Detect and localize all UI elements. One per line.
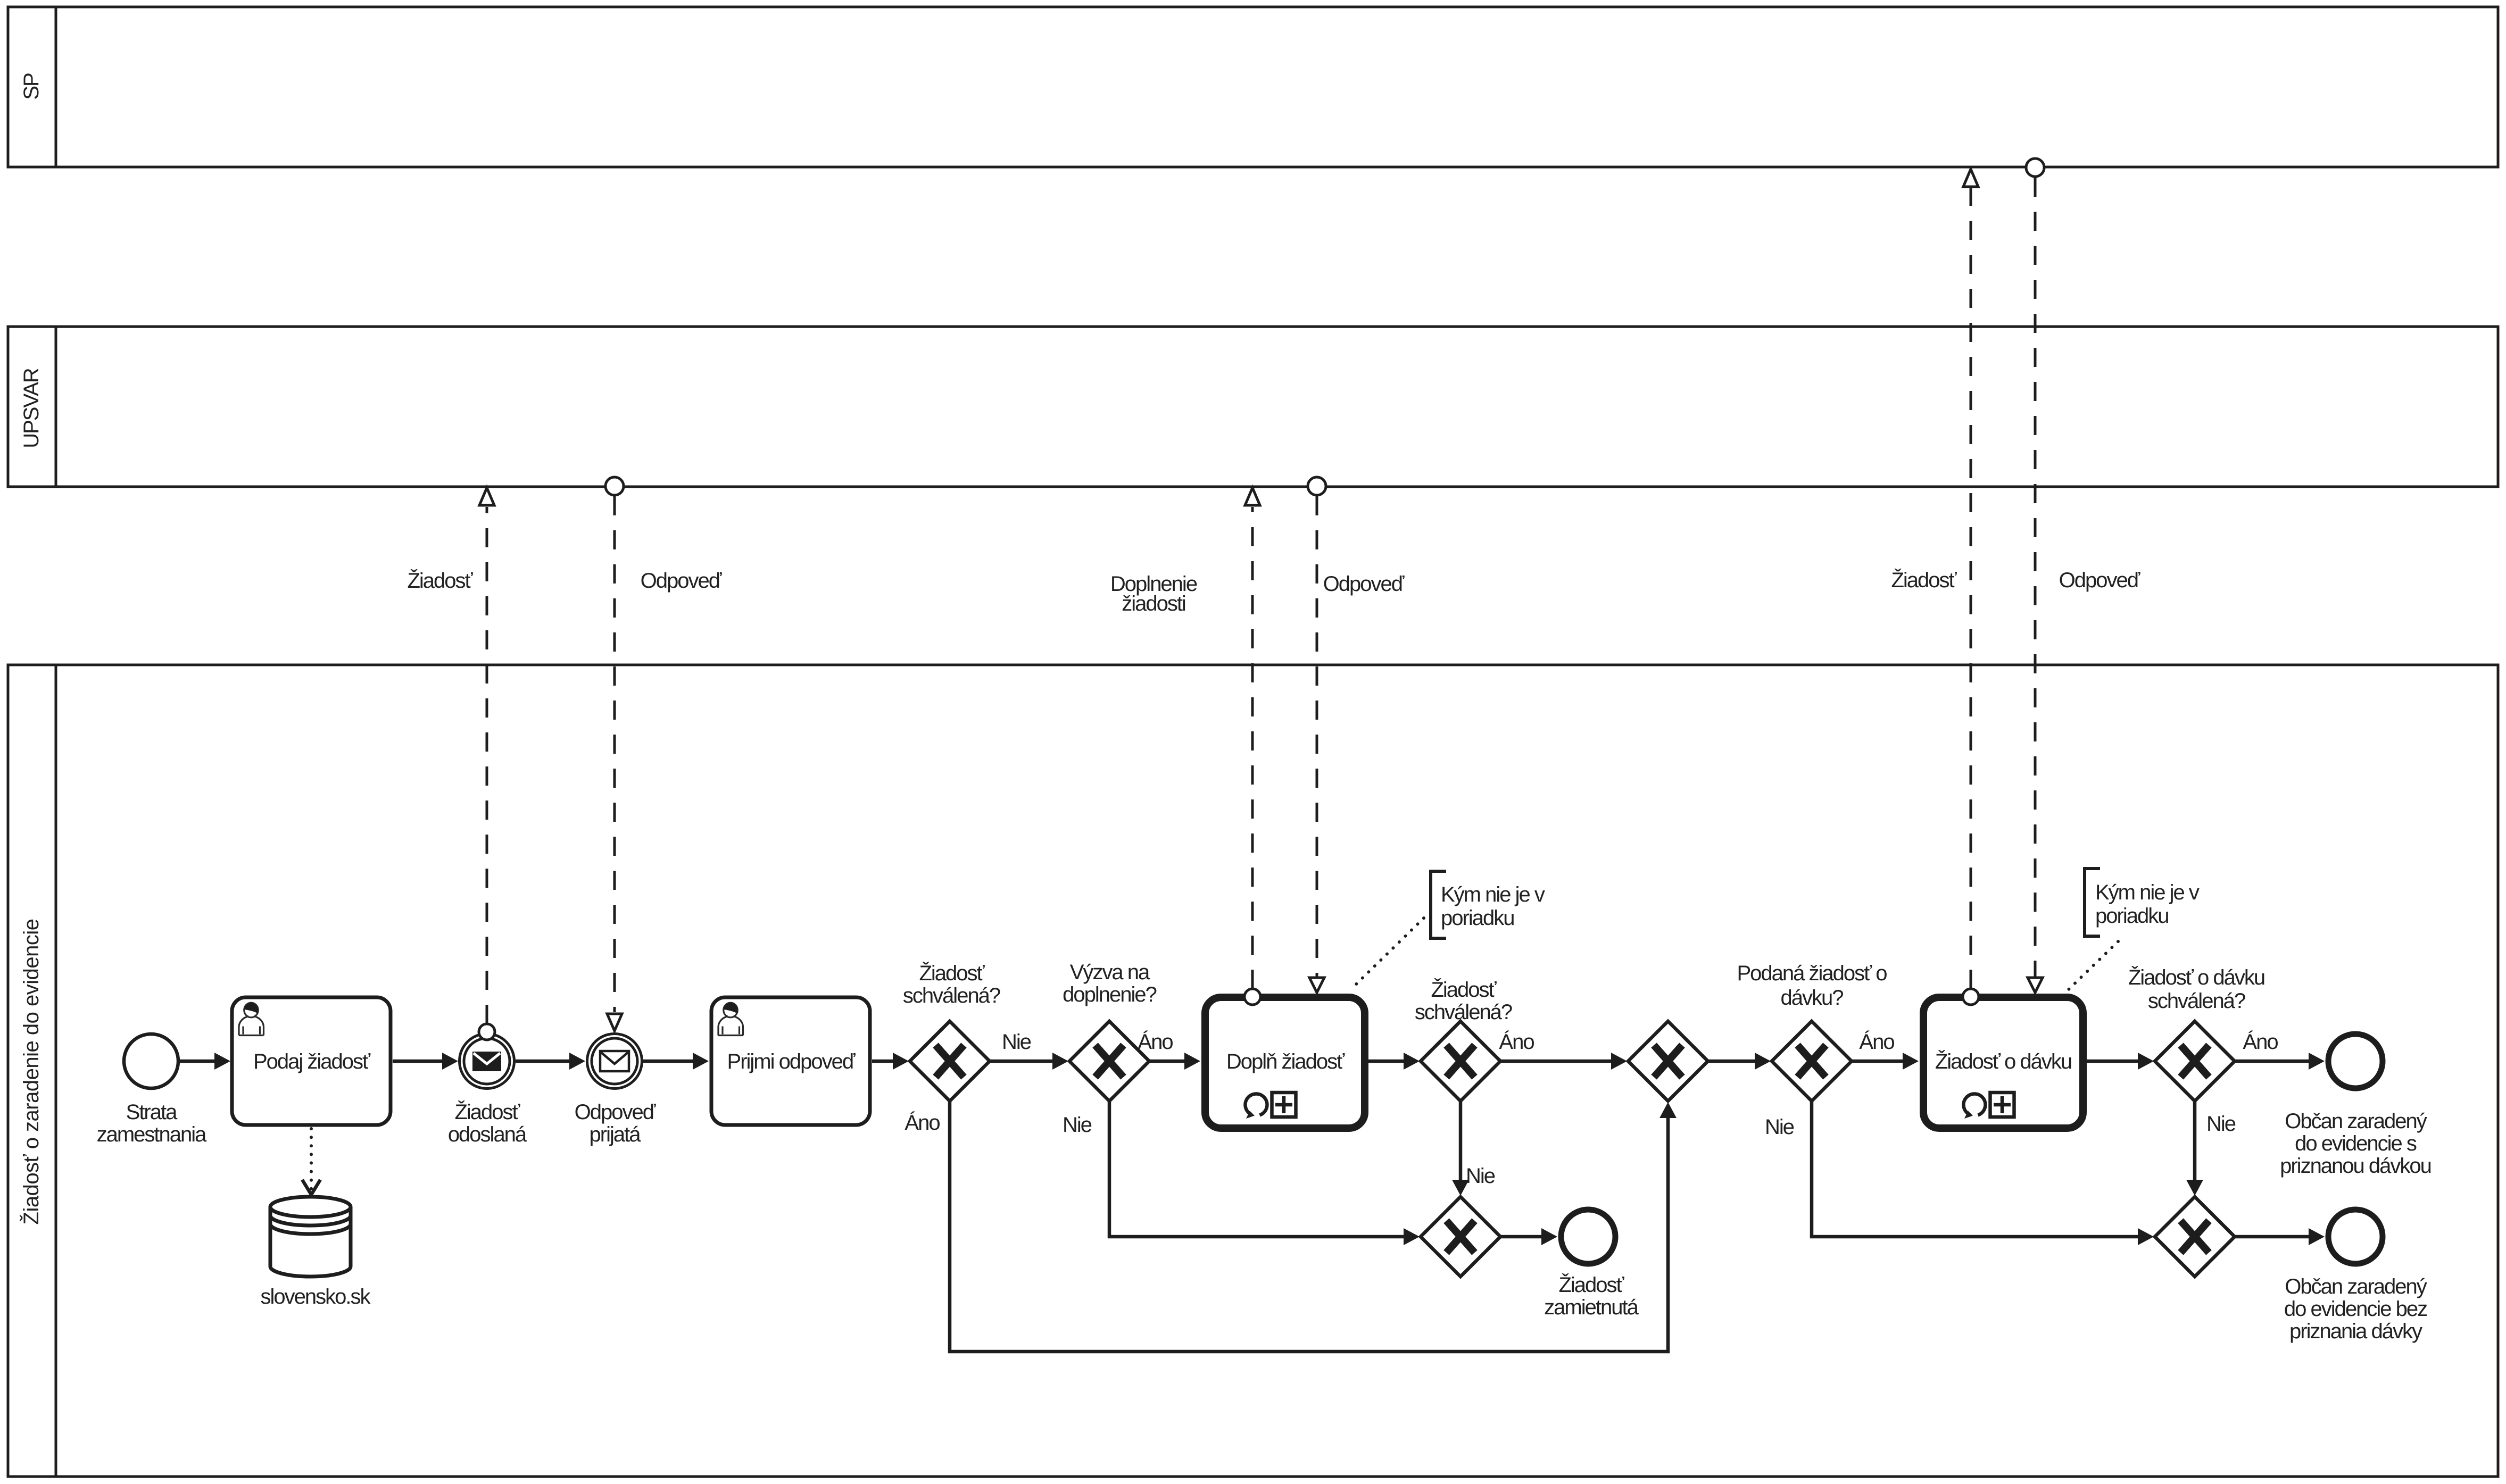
svg-text:Áno: Áno xyxy=(2243,1030,2278,1054)
end event Obcan zaradeny do evidencie s priznanou davkou xyxy=(2280,1034,2431,1178)
svg-text:Žiadosť: Žiadosť xyxy=(454,1100,520,1124)
subprocess Dopln ziadost xyxy=(1205,997,1365,1128)
wire throw to catch event xyxy=(516,1053,585,1070)
wire G7 Ano to end1 xyxy=(2235,1030,2325,1070)
wire G2 Nie down right to G4 xyxy=(1063,1101,1420,1245)
svg-text:Kým nie je v: Kým nie je v xyxy=(1441,883,1545,906)
gateway G6 Podana ziadost o davku? xyxy=(1737,962,1887,1101)
svg-text:Áno: Áno xyxy=(1499,1030,1534,1054)
wire G5 to G6 xyxy=(1708,1053,1771,1070)
svg-text:Občan zaradený: Občan zaradený xyxy=(2285,1110,2427,1133)
wire subprocess2 to G7 xyxy=(2087,1053,2154,1070)
svg-text:do evidencie bez: do evidencie bez xyxy=(2284,1297,2427,1321)
gateway G7 Ziadost o davku schvalena? xyxy=(2128,965,2264,1101)
wire G4 to end Ziadost zamietnuta xyxy=(1500,1228,1557,1245)
wire G7 Nie down to G8 xyxy=(2186,1101,2236,1196)
wire task2 to gateway1 xyxy=(872,1053,909,1070)
annotation Kym nie je v poriadku (right) xyxy=(2068,869,2200,990)
svg-text:Nie: Nie xyxy=(1002,1030,1031,1054)
annotation Kym nie je v poriadku (left) xyxy=(1352,871,1545,988)
wire catch to task2 xyxy=(643,1053,709,1070)
svg-text:Žiadosť o dávku: Žiadosť o dávku xyxy=(1935,1049,2071,1073)
svg-text:schválená?: schválená? xyxy=(1415,1001,1512,1024)
svg-text:Áno: Áno xyxy=(1138,1030,1173,1054)
wire G1 Ano long path to G5 xyxy=(905,1101,1677,1352)
gateway G4 merge xyxy=(1421,1197,1500,1277)
message throw event Ziadost odoslana xyxy=(448,1034,527,1147)
wire task1 to throw event xyxy=(393,1053,458,1070)
svg-text:Výzva na: Výzva na xyxy=(1070,961,1150,984)
message flow Odpoved (down to Dopln ziadost) xyxy=(1308,477,1405,993)
task Podaj ziadost xyxy=(232,997,391,1125)
svg-text:schválená?: schválená? xyxy=(2148,989,2245,1013)
svg-text:Nie: Nie xyxy=(1063,1113,1092,1137)
svg-text:žiadosti: žiadosti xyxy=(1122,592,1185,615)
svg-text:poriadku: poriadku xyxy=(1441,906,1514,930)
svg-text:Žiadosť o zaradenie do evidenc: Žiadosť o zaradenie do evidencie xyxy=(19,919,43,1225)
gateway G3 Ziadost schvalena? xyxy=(1415,978,1512,1101)
message flow Odpoved (down from UPSVAR) xyxy=(605,477,722,1031)
svg-text:Podaná žiadosť o: Podaná žiadosť o xyxy=(1737,962,1887,985)
svg-text:Prijmi odpoveď: Prijmi odpoveď xyxy=(727,1050,856,1073)
svg-text:Odpoveď: Odpoveď xyxy=(575,1101,656,1124)
pool UPSVAR xyxy=(8,327,2498,487)
wire G6 Nie down right to G8 xyxy=(1765,1101,2154,1245)
end event Ziadost zamietnuta xyxy=(1544,1210,1639,1319)
wire G3 Ano to G5 xyxy=(1499,1030,1627,1070)
svg-text:Odpoveď: Odpoveď xyxy=(1323,572,1405,596)
svg-text:doplnenie?: doplnenie? xyxy=(1063,983,1156,1006)
svg-text:zamestnania: zamestnania xyxy=(97,1123,208,1146)
svg-text:odoslaná: odoslaná xyxy=(448,1123,527,1146)
wire G1 Nie to gateway2 xyxy=(990,1030,1068,1070)
data store slovensko.sk xyxy=(261,1197,371,1308)
svg-text:prijatá: prijatá xyxy=(590,1123,642,1146)
svg-text:priznania dávky: priznania dávky xyxy=(2289,1320,2422,1343)
svg-text:Podaj žiadosť: Podaj žiadosť xyxy=(253,1050,371,1073)
svg-text:Áno: Áno xyxy=(905,1111,940,1135)
wire G6 Ano to subprocess Ziadost o davku xyxy=(1852,1030,1919,1070)
pool SP xyxy=(8,7,2498,167)
data association to slovensko.sk xyxy=(302,1129,320,1195)
svg-text:do evidencie s: do evidencie s xyxy=(2295,1132,2417,1155)
pool Ziadost o zaradenie do evidencie xyxy=(8,665,2498,1477)
svg-text:Žiadosť: Žiadosť xyxy=(1891,568,1957,592)
end event Obcan zaradeny do evidencie bez priznania davky xyxy=(2284,1210,2427,1343)
svg-text:Nie: Nie xyxy=(2206,1112,2236,1136)
svg-text:Odpoveď: Odpoveď xyxy=(641,569,722,593)
message flow Doplnenie ziadosti (up to UPSVAR) xyxy=(1110,488,1260,1005)
svg-text:Nie: Nie xyxy=(1765,1115,1794,1139)
svg-text:zamietnutá: zamietnutá xyxy=(1544,1296,1639,1319)
gateway G1 Ziadost schvalena? xyxy=(903,961,1000,1101)
gateway G8 merge xyxy=(2155,1197,2235,1277)
message flow Odpoved (down from SP) xyxy=(2026,159,2140,993)
start event Strata zamestnania xyxy=(97,1034,208,1146)
svg-text:Žiadosť: Žiadosť xyxy=(407,569,473,593)
svg-text:SP: SP xyxy=(20,73,43,100)
svg-text:Doplň žiadosť: Doplň žiadosť xyxy=(1226,1050,1345,1073)
wire start to task1 xyxy=(180,1053,230,1070)
svg-text:poriadku: poriadku xyxy=(2095,904,2168,928)
svg-text:priznanou dávkou: priznanou dávkou xyxy=(2280,1154,2431,1178)
message flow Ziadost (up to UPSVAR) xyxy=(407,488,495,1040)
svg-text:slovensko.sk: slovensko.sk xyxy=(261,1285,371,1308)
svg-text:Strata: Strata xyxy=(126,1101,178,1124)
svg-text:Žiadosť o dávku: Žiadosť o dávku xyxy=(2128,965,2264,989)
svg-text:Áno: Áno xyxy=(1859,1030,1894,1054)
gateway G2 Vyzva na doplnenie? xyxy=(1063,961,1156,1101)
svg-text:schválená?: schválená? xyxy=(903,984,1000,1007)
message catch event Odpoved prijata xyxy=(575,1034,656,1147)
wire G2 Ano to subprocess Dopln ziadost xyxy=(1138,1030,1200,1070)
svg-text:UPSVAR: UPSVAR xyxy=(20,368,43,448)
svg-text:Občan zaradený: Občan zaradený xyxy=(2285,1275,2427,1298)
message flow Ziadost (up to SP) xyxy=(1891,169,1979,1005)
svg-text:Kým nie je v: Kým nie je v xyxy=(2095,881,2200,904)
svg-text:Odpoveď: Odpoveď xyxy=(2059,569,2140,592)
svg-text:Žiadosť: Žiadosť xyxy=(1558,1273,1624,1297)
svg-text:dávku?: dávku? xyxy=(1781,986,1844,1010)
gateway G5 merge xyxy=(1628,1021,1708,1101)
subprocess Ziadost o davku xyxy=(1923,997,2083,1128)
svg-text:Žiadosť: Žiadosť xyxy=(919,961,985,985)
svg-text:Žiadosť: Žiadosť xyxy=(1431,978,1497,1002)
wire G3 Nie down to G4 xyxy=(1452,1101,1495,1196)
wire G8 to end2 xyxy=(2235,1228,2325,1245)
svg-text:Nie: Nie xyxy=(1466,1164,1495,1188)
wire subprocess1 to G3 xyxy=(1368,1053,1420,1070)
task Prijmi odpoved xyxy=(711,997,870,1125)
